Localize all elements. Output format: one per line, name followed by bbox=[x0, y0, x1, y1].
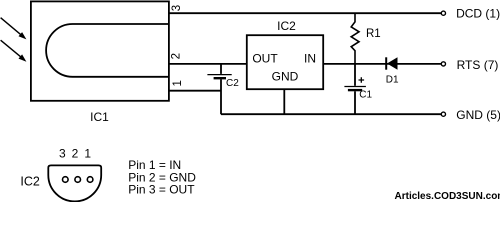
svg-text:IN: IN bbox=[304, 51, 316, 65]
svg-text:2: 2 bbox=[72, 147, 79, 161]
svg-text:C1: C1 bbox=[359, 90, 372, 101]
svg-text:IC1: IC1 bbox=[90, 110, 109, 124]
svg-text:C2: C2 bbox=[226, 78, 239, 89]
svg-text:DCD (1): DCD (1) bbox=[456, 7, 500, 21]
svg-text:R1: R1 bbox=[366, 28, 381, 40]
svg-text:OUT: OUT bbox=[252, 51, 278, 65]
svg-text:1: 1 bbox=[84, 147, 91, 161]
svg-text:IC2: IC2 bbox=[20, 174, 40, 188]
svg-text:IC2: IC2 bbox=[277, 19, 296, 33]
svg-text:D1: D1 bbox=[386, 75, 399, 86]
svg-text:RTS (7): RTS (7) bbox=[457, 58, 499, 72]
svg-text:GND: GND bbox=[272, 69, 299, 83]
svg-text:Pin 3 = OUT: Pin 3 = OUT bbox=[128, 183, 195, 197]
svg-text:3: 3 bbox=[59, 147, 66, 161]
svg-text:2: 2 bbox=[171, 53, 183, 59]
svg-text:Articles.COD3SUN.com: Articles.COD3SUN.com bbox=[395, 191, 500, 202]
svg-text:1: 1 bbox=[172, 80, 184, 86]
svg-text:3: 3 bbox=[171, 5, 183, 11]
svg-text:GND (5): GND (5) bbox=[456, 108, 500, 122]
